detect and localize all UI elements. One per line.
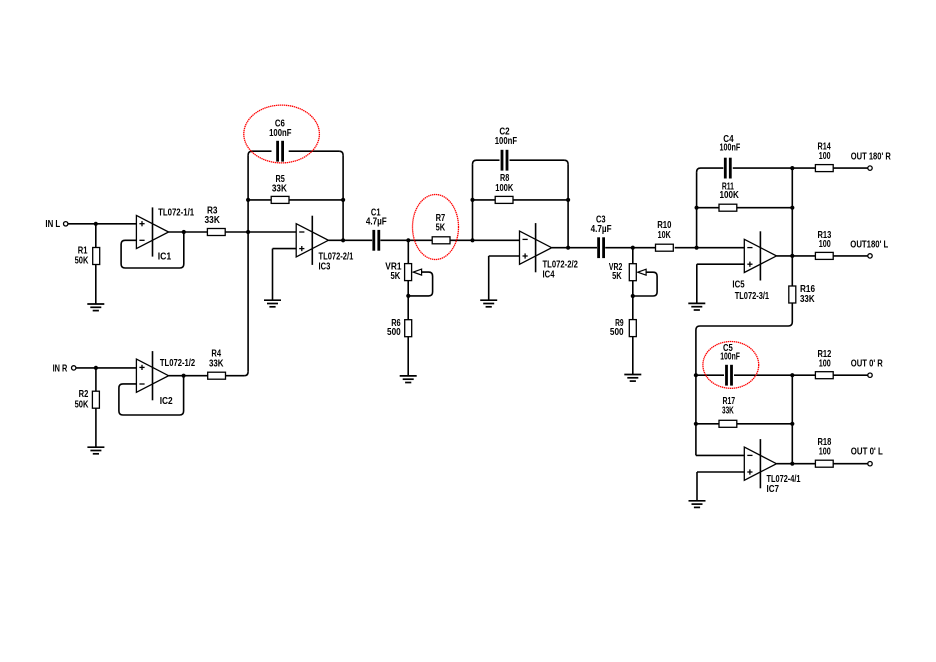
- svg-text:TL072-3/1: TL072-3/1: [735, 291, 770, 302]
- svg-text:4.7µF: 4.7µF: [591, 224, 612, 235]
- svg-text:100nF: 100nF: [720, 351, 740, 362]
- svg-text:TL072-1/2: TL072-1/2: [160, 358, 195, 369]
- svg-text:100: 100: [819, 358, 831, 369]
- svg-text:100nF: 100nF: [495, 136, 517, 147]
- svg-text:500: 500: [387, 327, 401, 338]
- svg-text:500: 500: [610, 327, 624, 338]
- svg-text:100nF: 100nF: [269, 128, 291, 139]
- svg-text:IC3: IC3: [319, 261, 331, 272]
- svg-text:OUT 180' R: OUT 180' R: [851, 151, 891, 162]
- svg-text:10K: 10K: [658, 230, 671, 241]
- svg-text:OUT 0' R: OUT 0' R: [851, 359, 883, 370]
- svg-text:IC2: IC2: [160, 396, 173, 407]
- svg-text:100nF: 100nF: [720, 142, 741, 153]
- svg-text:IC4: IC4: [543, 269, 555, 280]
- svg-text:100: 100: [819, 151, 831, 162]
- svg-text:33K: 33K: [800, 294, 815, 305]
- svg-text:IC7: IC7: [767, 484, 780, 495]
- svg-text:33K: 33K: [722, 406, 734, 417]
- svg-text:50K: 50K: [75, 255, 89, 266]
- svg-text:100K: 100K: [495, 183, 513, 194]
- svg-text:50K: 50K: [75, 399, 89, 410]
- svg-text:100: 100: [819, 239, 831, 250]
- svg-text:OUT 0' L: OUT 0' L: [851, 447, 883, 458]
- svg-text:TL072-1/1: TL072-1/1: [158, 208, 194, 219]
- svg-text:5K: 5K: [436, 223, 446, 234]
- svg-text:IN R: IN R: [53, 363, 68, 374]
- svg-text:IN L: IN L: [45, 219, 60, 230]
- svg-text:33K: 33K: [272, 183, 287, 194]
- svg-text:100K: 100K: [720, 190, 739, 201]
- svg-text:100: 100: [819, 447, 831, 458]
- svg-text:IC5: IC5: [732, 279, 745, 290]
- svg-text:33K: 33K: [209, 359, 224, 370]
- svg-text:33K: 33K: [205, 215, 220, 226]
- svg-text:OUT180' L: OUT180' L: [850, 239, 888, 250]
- svg-text:5K: 5K: [391, 271, 401, 282]
- svg-text:5K: 5K: [612, 271, 622, 282]
- svg-text:IC1: IC1: [158, 251, 172, 262]
- svg-text:4.7µF: 4.7µF: [366, 217, 387, 228]
